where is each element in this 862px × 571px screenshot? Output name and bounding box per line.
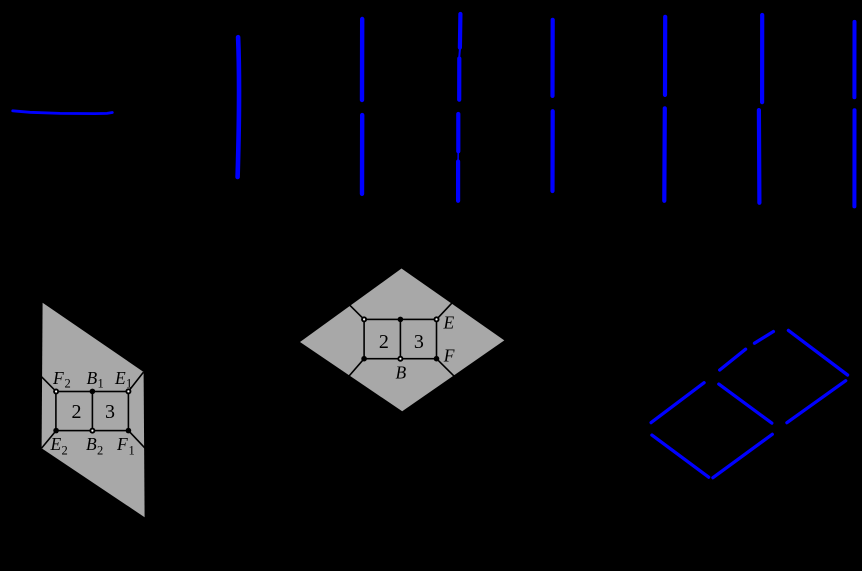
left figure: diagonal from E2 <box>42 431 57 449</box>
middle figure: diagonal bottom-left <box>348 359 364 377</box>
blue tally stroke C7 lower <box>852 110 856 206</box>
blue rhombus figure: upper diamond lower-right edge <box>787 381 846 423</box>
blue rhombus figure: upper diamond upper-left edge segment b <box>755 332 774 344</box>
svg-text:F: F <box>52 368 64 388</box>
left figure: cell number 2 <box>72 401 82 423</box>
blue horizontal ink stroke H1 <box>13 111 113 114</box>
blue rhombus figure: lower diamond lower-left edge <box>652 435 709 477</box>
middle figure: cell number 2 <box>379 331 389 353</box>
svg-text:2: 2 <box>97 444 103 458</box>
svg-text:1: 1 <box>126 377 132 391</box>
left figure: label E2 <box>50 434 68 458</box>
middle figure: label E <box>443 313 455 333</box>
left figure: filled vertex E2 <box>53 428 59 434</box>
svg-text:F: F <box>116 434 128 454</box>
left figure: label F2 <box>52 368 71 391</box>
blue rhombus figure: upper diamond upper-left edge segment a <box>720 349 746 370</box>
left figure: filled vertex B1 <box>90 389 96 395</box>
svg-text:B: B <box>87 368 98 388</box>
svg-text:E: E <box>50 434 62 454</box>
middle figure: filled vertex bottom-left <box>361 356 367 362</box>
left figure: label B1 <box>87 368 104 391</box>
left figure: label E1 <box>114 368 132 391</box>
svg-text:E: E <box>443 313 455 333</box>
left figure: cell number 3 <box>105 401 115 423</box>
left figure: open vertex E1 <box>126 389 130 393</box>
blue tally stroke C2 upper <box>360 19 365 100</box>
blue rhombus figure: shared middle edge <box>719 384 772 423</box>
middle figure: filled vertex top-middle <box>398 317 404 323</box>
svg-text:2: 2 <box>72 401 82 423</box>
middle figure: inner rectangle <box>364 319 436 358</box>
left figure: inner rectangle <box>56 392 128 431</box>
middle figure: diagonal top-right <box>437 302 453 319</box>
blue tally stroke C2 lower <box>360 115 365 194</box>
blue tally stroke C6 lower <box>757 110 762 203</box>
svg-text:F: F <box>443 346 455 366</box>
blue rhombus figure: upper diamond upper-right edge <box>788 330 847 375</box>
blue rhombus figure: lower diamond upper-left edge <box>651 383 704 423</box>
middle figure: label F <box>443 346 455 366</box>
middle figure: gray rhombus <box>300 269 504 412</box>
left figure: open vertex F2 <box>54 389 58 393</box>
svg-text:B: B <box>86 434 97 454</box>
left figure: diagonal from F2 <box>41 376 56 391</box>
middle figure: open vertex B <box>398 357 402 361</box>
left figure: diagonal from E1 <box>128 372 143 391</box>
blue tally stroke C1 <box>238 37 239 177</box>
blue tally stroke C3 upper <box>458 14 463 48</box>
svg-text:B: B <box>396 363 407 383</box>
blue tally stroke C4 lower <box>550 111 554 191</box>
svg-text:3: 3 <box>414 331 424 353</box>
middle figure: diagonal top-left <box>349 305 364 320</box>
svg-text:2: 2 <box>65 377 71 391</box>
middle figure: label B <box>396 363 407 383</box>
svg-text:2: 2 <box>379 331 389 353</box>
left figure: filled vertex F1 <box>126 428 132 434</box>
middle figure: cell number 3 <box>414 331 424 353</box>
blue rhombus figure: lower diamond lower-right edge <box>713 434 772 477</box>
blue tally stroke C6 upper <box>760 15 764 102</box>
left figure: gray parallelogram <box>42 303 145 517</box>
middle figure: open vertex top-left <box>362 317 366 321</box>
blue tally stroke C4 upper <box>550 20 554 96</box>
svg-text:3: 3 <box>105 401 115 423</box>
svg-text:1: 1 <box>98 377 104 391</box>
blue tally stroke C3 lower <box>456 114 460 151</box>
left figure: label F1 <box>116 434 135 458</box>
middle figure: diagonal bottom-right <box>437 359 455 377</box>
left figure: label B2 <box>86 434 103 458</box>
svg-text:2: 2 <box>62 444 68 458</box>
middle figure: open vertex E <box>434 317 438 321</box>
blue tally stroke C5 upper <box>663 17 667 95</box>
middle figure: middle vertical wire <box>399 319 401 358</box>
middle figure: filled vertex F <box>434 356 440 362</box>
left figure: open vertex B2 <box>90 429 94 433</box>
svg-text:1: 1 <box>129 444 135 458</box>
left figure: diagonal from F1 <box>128 431 145 449</box>
svg-text:E: E <box>114 368 126 388</box>
blue tally stroke C7 upper <box>852 22 856 97</box>
blue tally stroke C5 lower <box>662 108 667 201</box>
left figure: middle vertical wire <box>91 392 93 431</box>
